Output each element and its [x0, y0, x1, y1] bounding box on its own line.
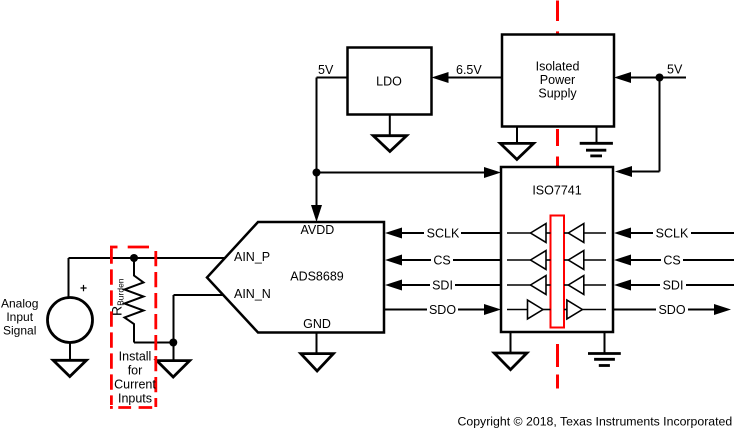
- svg-text:Analog: Analog: [1, 297, 38, 311]
- wire source to AIN_P: [68, 258, 70, 298]
- resistor RBurden: [125, 258, 144, 343]
- wire AIN_N: [174, 294, 224, 296]
- svg-text:5V: 5V: [318, 63, 334, 77]
- isolation boundary dashed line: [556, 1, 559, 389]
- svg-text:CS: CS: [663, 254, 680, 268]
- svg-text:Supply: Supply: [538, 87, 577, 101]
- voltage source: analog input signal: [48, 285, 93, 343]
- net label CS (right): [661, 254, 683, 266]
- earth ground under isolated power supply (right): [580, 127, 613, 156]
- svg-text:SDO: SDO: [658, 303, 685, 317]
- svg-text:6.5V: 6.5V: [456, 63, 482, 77]
- wire 5V rail to ISO7741 VCC1: [317, 172, 486, 174]
- wire 5V to LDO input: [317, 77, 348, 79]
- svg-text:Install: Install: [119, 350, 152, 364]
- ISO7741 channel 2 buffers (CS): [507, 251, 606, 270]
- label install for current inputs: [114, 350, 156, 406]
- ground under ISO7741 (left): [494, 332, 527, 370]
- svg-text:for: for: [128, 364, 143, 378]
- arrow into ADS8689 CS pin: [385, 255, 402, 266]
- svg-text:Isolated: Isolated: [536, 60, 580, 74]
- net label SDO (right): [656, 304, 688, 316]
- svg-text:SDI: SDI: [432, 279, 453, 293]
- wire SCLK (ISO7741 to ADS8689): [402, 232, 501, 234]
- svg-text:Input: Input: [6, 310, 33, 324]
- svg-text:Inputs: Inputs: [118, 392, 152, 406]
- svg-text:SDI: SDI: [663, 279, 684, 293]
- node junction on right 5V rail: [656, 74, 664, 82]
- wire SDI (ISO7741 to ADS8689): [402, 284, 501, 286]
- svg-text:LDO: LDO: [376, 75, 402, 89]
- net label SCLK: [424, 227, 461, 239]
- plus sign: [81, 285, 87, 291]
- arrow into ISO7741 right supply pin: [615, 166, 632, 177]
- svg-text:Power: Power: [540, 73, 575, 87]
- earth ground under ISO7741 (right): [588, 332, 621, 366]
- arrow into ISO7741 SCLK input: [614, 228, 631, 239]
- arrow into ADS8689 SDI pin: [385, 280, 402, 291]
- node junction at resistor top: [130, 254, 138, 262]
- net label SDO: [427, 304, 458, 316]
- svg-text:CS: CS: [433, 254, 450, 268]
- wire SDO to controller: [613, 309, 715, 311]
- ground under ADS8689 GND pin: [301, 333, 334, 372]
- wire 5V rail down to AVDD: [316, 78, 318, 207]
- net label SCLK (right): [653, 227, 691, 239]
- net label CS: [431, 254, 453, 266]
- net label SDI (right): [660, 279, 686, 291]
- wire SDO (ADS8689 to ISO7741): [384, 309, 485, 311]
- Isolated Power Supply box: [502, 35, 614, 127]
- wire 6.5V from isolated supply to LDO: [448, 77, 502, 79]
- ground under isolated power supply (left): [500, 127, 533, 160]
- LDO box: [348, 48, 432, 115]
- svg-text:5V: 5V: [667, 63, 683, 77]
- svg-text:Copyright © 2018, Texas Instru: Copyright © 2018, Texas Instruments Inco…: [458, 415, 733, 429]
- svg-text:AIN_N: AIN_N: [234, 287, 271, 301]
- optional burden resistor region (red dashed box): [111, 247, 155, 408]
- svg-text:ISO7741: ISO7741: [532, 184, 581, 198]
- ground at AIN_N branch: [157, 361, 190, 377]
- ground under analog source: [53, 343, 86, 377]
- svg-text:Signal: Signal: [3, 324, 36, 338]
- arrow toward controller SDO: [714, 304, 731, 315]
- arrow into ISO7741 SDO input: [484, 304, 501, 315]
- arrow into ISO7741 SDI input: [614, 280, 631, 291]
- digital isolator ISO7741 box: [501, 167, 613, 332]
- svg-text:ADS8689: ADS8689: [290, 270, 344, 284]
- wire right 5V rail down: [659, 78, 661, 172]
- wire CS (ISO7741 to ADS8689): [402, 259, 501, 261]
- resistor label RBurden (rotated): [109, 278, 126, 316]
- ground under LDO: [373, 115, 406, 152]
- svg-text:AVDD: AVDD: [300, 223, 334, 237]
- arrow into ISO7741 left supply pin: [484, 167, 501, 178]
- label analog input signal: [1, 297, 38, 338]
- net label SDI: [430, 279, 455, 291]
- svg-text:SDO: SDO: [429, 303, 456, 317]
- wire SDI from controller: [631, 284, 734, 286]
- wire right 5V rail to ISO7741 VCC2: [632, 171, 660, 173]
- svg-text:SCLK: SCLK: [656, 227, 689, 241]
- ADC ADS8689: [207, 222, 384, 333]
- ISO7741 channel 4 buffers (SDO): [507, 300, 606, 319]
- node junction at AIN_N ground branch: [169, 339, 177, 347]
- isolation barrier inside ISO7741: [551, 216, 565, 328]
- svg-text:Current: Current: [114, 378, 156, 392]
- arrow into AVDD pin: [311, 205, 322, 222]
- arrow into isolated power supply input: [614, 72, 631, 83]
- wire resistor bottom to AIN_N net: [134, 342, 174, 344]
- wire right 5V supply to isolated power supply: [631, 77, 687, 79]
- ISO7741 channel 1 buffers (SCLK): [507, 224, 606, 243]
- arrow into ISO7741 CS input: [614, 255, 631, 266]
- ISO7741 channel 3 buffers (SDI): [507, 276, 606, 295]
- svg-text:GND: GND: [303, 317, 331, 331]
- node junction on 5V rail: [313, 169, 321, 177]
- wire CS from controller: [631, 259, 734, 261]
- arrow into LDO input: [432, 72, 449, 83]
- svg-text:AIN_P: AIN_P: [234, 250, 270, 264]
- svg-text:SCLK: SCLK: [427, 227, 460, 241]
- wire SCLK from controller: [631, 232, 734, 234]
- arrow into ADS8689 SCLK pin: [385, 228, 402, 239]
